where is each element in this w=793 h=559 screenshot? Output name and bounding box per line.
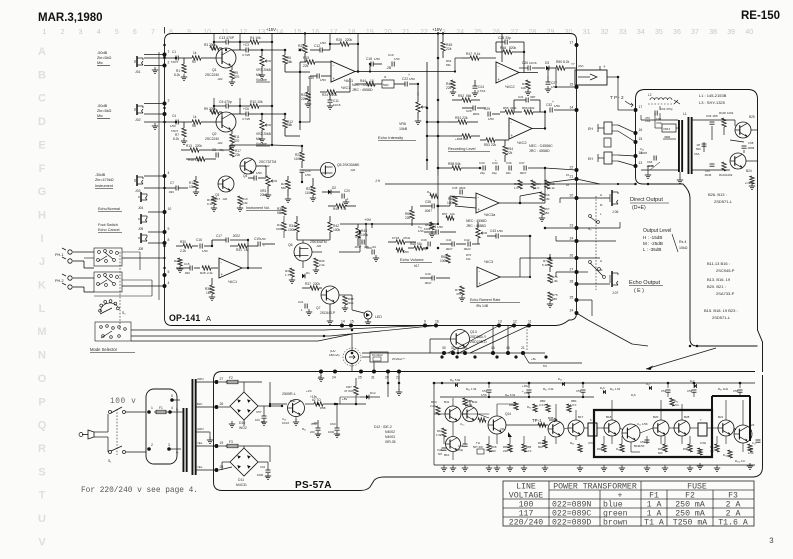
pin 14 on OP-141 right edge [575,108,579,112]
svg-text:.0027: .0027 [519,171,527,175]
capacitor C41 .0027 [451,242,453,247]
bridge rectifier D11 [230,448,258,476]
svg-text:R₉₄: R₉₄ [674,399,678,403]
svg-text:C41: C41 [446,238,452,242]
svg-text:27: 27 [510,29,518,36]
wire q6 chain [297,239,330,241]
fuse block outline [146,389,177,464]
svg-text:1 A: 1 A [647,501,662,510]
svg-text:22k: 22k [507,151,513,155]
svg-text:+C3: +C3 [243,43,249,47]
pin 28 ps [215,468,219,472]
wire amp drops [452,422,454,436]
wire amp vertical tops [488,383,490,388]
svg-text:1/50: 1/50 [409,77,415,81]
resistor R46 22k [451,80,455,89]
capacitor C10 out [756,439,761,441]
wire bottom exit diagonal [577,313,589,320]
svg-text:2SC945-P: 2SC945-P [716,268,735,273]
svg-text:R56: R56 [522,106,528,110]
svg-text:100k: 100k [447,201,454,205]
svg-text:C68: C68 [748,141,754,145]
svg-text:.01μ: .01μ [491,171,497,175]
transistor B28 [674,420,690,436]
capacitor C11 10/16 [328,99,333,101]
dashed selector link [119,252,121,330]
svg-text:13: 13 [498,320,502,324]
wire motor feed [351,363,353,372]
capacitor C15 .033 [189,266,191,271]
capacitor C58 amp [738,389,743,391]
svg-text:250 mA: 250 mA [675,510,705,519]
svg-text:YEL: YEL [197,441,203,445]
svg-text:Mode Selector: Mode Selector [90,347,118,352]
svg-text:1/50: 1/50 [320,41,326,45]
svg-text:100 v: 100 v [110,398,136,406]
wire diag 12 [459,326,514,354]
transistor B45 [548,421,564,437]
jack J04 echo-normal [140,192,142,202]
svg-text:4.7/25: 4.7/25 [242,53,250,57]
svg-text:C66: C66 [706,114,712,118]
svg-text:-GR: -GR [350,168,355,172]
capacitor C27 1/50 [546,81,551,83]
wire q4 out [256,165,266,167]
svg-text:10k: 10k [466,257,471,261]
transistor Q4 2SC732TM [240,158,256,174]
resistor R18 9.1k [212,196,216,205]
wire pin23 link [545,227,577,229]
svg-text:DC Motor: DC Motor [372,353,383,357]
svg-text:Q14: Q14 [505,412,511,416]
svg-text:2505R-L: 2505R-L [282,392,296,396]
svg-text:Q4: Q4 [243,174,247,178]
svg-text:4: 4 [168,171,170,175]
svg-text:100k: 100k [726,173,733,177]
svg-text:9.1k: 9.1k [474,52,481,56]
svg-text:Q: Q [38,420,47,432]
svg-text:For 220/240 v see page 4.: For 220/240 v see page 4. [81,487,198,495]
resistor RK3 2.2k [436,406,440,415]
resistor R10 10k [250,104,259,108]
svg-text:820: 820 [538,445,543,449]
pin 17 head unit [634,108,638,112]
svg-text:28: 28 [220,465,224,469]
svg-text:5%: 5% [543,364,547,368]
svg-text:R₆₂: R₆₂ [427,190,431,194]
pin 26 on OP-141 right edge [575,256,579,260]
wire echo out3 [577,283,611,285]
svg-text:.0047: .0047 [354,245,362,249]
svg-text:VR2 20kB: VR2 20kB [256,132,272,136]
svg-text:100k: 100k [288,228,296,232]
resistor R30 2.2k [183,244,192,248]
svg-text:+: + [263,244,265,248]
svg-text:1 A: 1 A [647,510,662,519]
pin 25 on PS top edge [359,370,363,374]
svg-text:JRC : 4558D: JRC : 4558D [466,224,487,228]
capacitor C49 470 [463,443,468,445]
svg-text:D₄6: D₄6 [600,386,605,390]
svg-text:F1: F1 [649,492,659,501]
svg-text:H: H [600,259,602,263]
svg-text:1/50: 1/50 [481,393,487,397]
transistor Q14 [488,416,506,434]
svg-text:PH-2: PH-2 [55,279,64,283]
svg-text:32: 32 [601,29,609,36]
resistor R41 100k [282,222,286,231]
pin 22 on PS top edge [397,370,401,374]
svg-text:C25 33p: C25 33p [498,36,511,40]
svg-text:29: 29 [547,29,555,36]
resistor R28 2.2k [202,266,211,270]
svg-text:Rs 4: Rs 4 [679,240,686,244]
svg-text:Recording Level: Recording Level [448,147,476,151]
vertical feed 427 [426,62,428,170]
wire amp rail mid [440,396,594,398]
svg-text:C29: C29 [484,107,490,111]
coupler box 1 [588,423,597,436]
PS-57A enclosure outline [214,372,763,491]
pin 21 on PS top edge [319,370,323,374]
svg-text:-GR: -GR [217,141,223,145]
pin 16 on OP-141 bottom edge [434,324,438,328]
svg-text:26: 26 [220,402,224,406]
svg-text:30: 30 [442,346,446,350]
potentiometer VR1 20kB mic volume [260,56,264,66]
wire battery link [607,76,618,78]
resistor RB row1 [602,444,606,452]
svg-text:680: 680 [544,211,549,215]
svg-text:50R: 50R [383,83,389,87]
svg-text:ISR-35: ISR-35 [385,440,396,444]
svg-text:2: 2 [151,443,153,447]
capacitor C8 47p [215,153,217,158]
svg-text:110k: 110k [305,191,312,195]
resistor R19 5.6k [238,196,242,205]
svg-text:+C6: +C6 [243,107,249,111]
svg-text:24: 24 [570,309,574,313]
wire out direct [577,197,611,199]
resistor R16 470k [196,157,205,161]
svg-text:F2: F2 [229,376,233,380]
resistor R15 22k [306,60,315,64]
svg-text:20: 20 [384,29,392,36]
svg-text:34: 34 [637,29,645,36]
svg-text:10k: 10k [189,185,195,189]
svg-text:J02: J02 [135,118,141,122]
transistor Q25 head amp [735,122,751,138]
svg-text:16: 16 [312,29,320,36]
svg-text:B15. B18. 19 B23 :: B15. B18. 19 B23 : [704,308,738,313]
resistor R51 22k [458,120,467,124]
svg-text:180mA): 180mA) [329,353,340,357]
svg-text:Instrument: Instrument [95,184,114,188]
wire inst to board [144,187,165,189]
op-amp IC3 second half [477,267,500,287]
resistor R20 56k [286,180,290,189]
svg-text:820: 820 [658,451,663,455]
resistor R64 1K [531,180,535,189]
svg-text:R10 10k: R10 10k [250,100,263,104]
capacitor C9 1/50 [253,176,255,181]
svg-text:#17: #17 [414,264,420,268]
svg-text:56k: 56k [287,123,293,127]
svg-text:17: 17 [639,105,643,109]
transistor B10 [446,437,461,452]
transistor B41 [445,406,461,422]
svg-text:C19: C19 [388,53,394,57]
resistor R1 8.2k [182,64,186,73]
jack J06 aux [140,233,142,243]
svg-text:50T 4W: 50T 4W [473,445,483,449]
svg-text:R37: R37 [305,282,311,286]
svg-text:R15: R15 [303,56,309,60]
svg-text:K: K [38,280,46,292]
svg-text:+8v: +8v [531,357,536,361]
svg-text:2SC640-P: 2SC640-P [320,311,336,315]
jack J07 echo output [611,271,613,287]
diode D44 [455,383,458,387]
wire pin27 link [556,271,577,273]
svg-text:C56: C56 [687,389,693,393]
switch direct out [589,215,592,218]
svg-text:C28: C28 [466,109,472,113]
svg-text:R₆₁: R₆₁ [302,427,306,431]
svg-text:½IC2: ½IC2 [517,140,527,145]
svg-text:+15V: +15V [266,27,276,32]
svg-text:#2 7Ω: #2 7Ω [312,398,321,402]
svg-text:100: 100 [255,418,260,422]
svg-text:10kΩ: 10kΩ [679,246,688,250]
pin 3 on OP-141 left edge [163,102,167,106]
svg-text:56k: 56k [281,186,286,190]
wire diag 13 [448,326,499,354]
svg-text:-50dB: -50dB [97,104,108,108]
svg-text:240: 240 [503,449,508,453]
capacitor C53b [645,439,650,441]
svg-text:Echo Cancel: Echo Cancel [98,228,120,232]
wire diag 11 [470,326,529,354]
svg-text:A: A [206,314,211,323]
svg-text:Echo Volume: Echo Volume [400,257,424,262]
capacitor C25 33p [504,40,506,45]
svg-text:10k: 10k [450,212,455,216]
svg-text:J.06: J.06 [612,210,619,214]
svg-text:19: 19 [220,441,224,445]
pin 27 ps [215,380,219,384]
resistor R29 1.7 [178,258,182,266]
svg-text:B: B [38,69,46,81]
resistor R7 8.2k [182,128,186,137]
transistor Q6 2SK30ATM [294,243,312,261]
svg-text:/16: /16 [372,245,376,249]
svg-text:R₁₀₅: R₁₀₅ [723,453,728,457]
resistor r250 [396,248,404,252]
wire q13 drop [457,348,459,353]
pin 13 on OP-141 bottom edge [497,324,501,328]
wire rec level bus [427,121,448,123]
jack PH-1 phono [68,250,72,254]
svg-text:1/50: 1/50 [260,237,266,241]
wire pin20 link [560,197,577,199]
svg-text:R29: R29 [174,259,180,263]
svg-text:1 M: 1 M [341,207,347,211]
svg-text:C22: C22 [402,77,408,81]
svg-text:25: 25 [358,376,362,380]
svg-text:C10: C10 [308,76,314,80]
capacitor C56 amp [692,389,697,391]
svg-text:O: O [38,373,47,385]
svg-text:9: 9 [187,29,191,36]
svg-text:100k: 100k [424,227,431,231]
svg-text:R₈₁ 5.6k: R₈₁ 5.6k [450,378,461,382]
svg-text:R2: R2 [192,60,196,64]
svg-text:D: D [38,116,46,128]
svg-text:Q5 2SK30ABK: Q5 2SK30ABK [337,163,360,167]
svg-text:P: P [38,396,45,408]
diode Da1 [562,382,565,386]
svg-text:.0022: .0022 [232,234,240,238]
svg-text:56k: 56k [466,94,472,98]
svg-text:R86: R86 [509,403,515,407]
svg-text:C37: C37 [519,161,525,165]
svg-text:J05: J05 [138,247,143,251]
svg-text:C6J: C6J [260,465,266,469]
svg-text:022=089C: 022=089C [552,510,591,519]
svg-text:Q13: Q13 [470,330,477,334]
wire echo send run [339,251,360,253]
transistor Q2 2SC2240 [216,112,236,132]
svg-text:22k: 22k [303,64,309,68]
svg-text:T P - 2: T P - 2 [610,95,624,100]
svg-text:220/240: 220/240 [509,518,543,528]
record head upper [604,138,611,147]
resistor R8 1k [192,120,201,124]
resistor R73 5.1k [548,258,552,267]
svg-text:C20: C20 [344,189,350,193]
wire motor drop link [351,334,353,350]
resistor R36 2.2k [314,258,318,267]
svg-text:C18: C18 [366,57,372,61]
svg-text:470: 470 [588,441,593,445]
wire vert 16 [507,326,509,354]
wire mode selector out2 [131,335,330,337]
resistor R48 820k [503,50,512,54]
transistor B42 [463,407,478,422]
svg-text:B24: B24 [746,169,752,173]
svg-text:10/16: 10/16 [529,61,537,65]
svg-text:21: 21 [570,175,574,179]
resistor R86 5.6k [514,402,518,410]
svg-text:M: M [37,326,46,338]
svg-text:J05: J05 [138,227,143,231]
wire motor bus [351,329,353,331]
svg-text:ORN: ORN [197,377,203,381]
transistor B20 [653,420,669,436]
svg-text:23: 23 [570,224,574,228]
svg-text:14: 14 [570,106,574,110]
potentiometer VR4 echo volume [476,228,480,238]
enclosure head unit outline left [636,90,758,347]
head unit horizontals [641,119,678,121]
power amp extra grounds [579,465,581,468]
svg-text:C15: C15 [184,262,190,266]
svg-text:+15V: +15V [432,27,442,32]
capacitor C29 1/50 [487,112,489,117]
svg-text:½IC2: ½IC2 [505,84,515,89]
svg-text:2SA733-P: 2SA733-P [716,291,735,296]
svg-text:26: 26 [570,254,574,258]
pin 20 on OP-141 right edge [575,196,579,200]
svg-text:40: 40 [745,29,753,36]
svg-text:56k: 56k [446,63,451,67]
ground texture q6 [315,267,317,270]
transformer T secondary bars [192,379,194,475]
svg-text:JRC : 4558D: JRC : 4558D [529,149,550,153]
wire switch2 to board pin4 [122,285,165,287]
svg-text:R100: R100 [719,111,726,115]
svg-text:D11: D11 [238,478,244,482]
svg-text:100k: 100k [440,259,447,263]
resistor R66 1.8k [540,192,544,201]
svg-text:R5B: R5B [320,406,326,410]
svg-text:7: 7 [151,29,155,36]
capacitor C68 .0068 [742,145,747,147]
capacitor C7 .033 [175,186,177,191]
extra junction dots 2 [175,57,178,60]
svg-text:16: 16 [566,183,570,187]
svg-text:VR1 20kB: VR1 20kB [256,68,272,72]
svg-text:2SD571-L: 2SD571-L [712,315,731,320]
svg-text:-GR: -GR [316,244,321,248]
svg-text:13: 13 [257,29,265,36]
dashed link pin11 [526,326,528,351]
svg-text:G: G [38,186,47,198]
svg-text:JRC : 4558D: JRC : 4558D [352,88,373,92]
erase head EH upper [604,122,612,134]
svg-text:.0045: .0045 [704,173,712,177]
svg-text:C₁₀: C₁₀ [752,441,756,445]
svg-text:220k: 220k [313,282,320,286]
resistor RB row2 [620,444,624,452]
capacitor C51 amp [487,389,492,391]
svg-text:470: 470 [234,139,240,143]
wire sec blk [195,406,217,408]
resistor R4 10k [250,40,259,44]
svg-text:+9V: +9V [364,217,372,222]
resistor R63 1K [518,180,522,189]
svg-text:9: 9 [168,227,170,231]
wire out level2 [577,240,617,242]
resistor R23 22k [306,92,310,101]
svg-text:28: 28 [570,280,574,284]
svg-text:F2: F2 [685,492,695,501]
svg-text:.033: .033 [184,271,190,275]
svg-text:11: 11 [528,320,532,324]
op-amp IC1 first half [331,61,355,82]
wire l2 to xfmr [674,100,680,104]
svg-text:NEC : 4558D: NEC : 4558D [466,219,487,223]
svg-text:1M: 1M [206,291,211,295]
op-amp IC2 second half [509,118,532,139]
svg-text:B45: B45 [548,416,554,420]
svg-text:91k: 91k [417,242,423,246]
svg-text:820k: 820k [509,46,517,50]
svg-text:C43: C43 [490,229,496,233]
svg-text:47kΩ: 47kΩ [403,236,411,240]
svg-text:470: 470 [456,292,461,296]
